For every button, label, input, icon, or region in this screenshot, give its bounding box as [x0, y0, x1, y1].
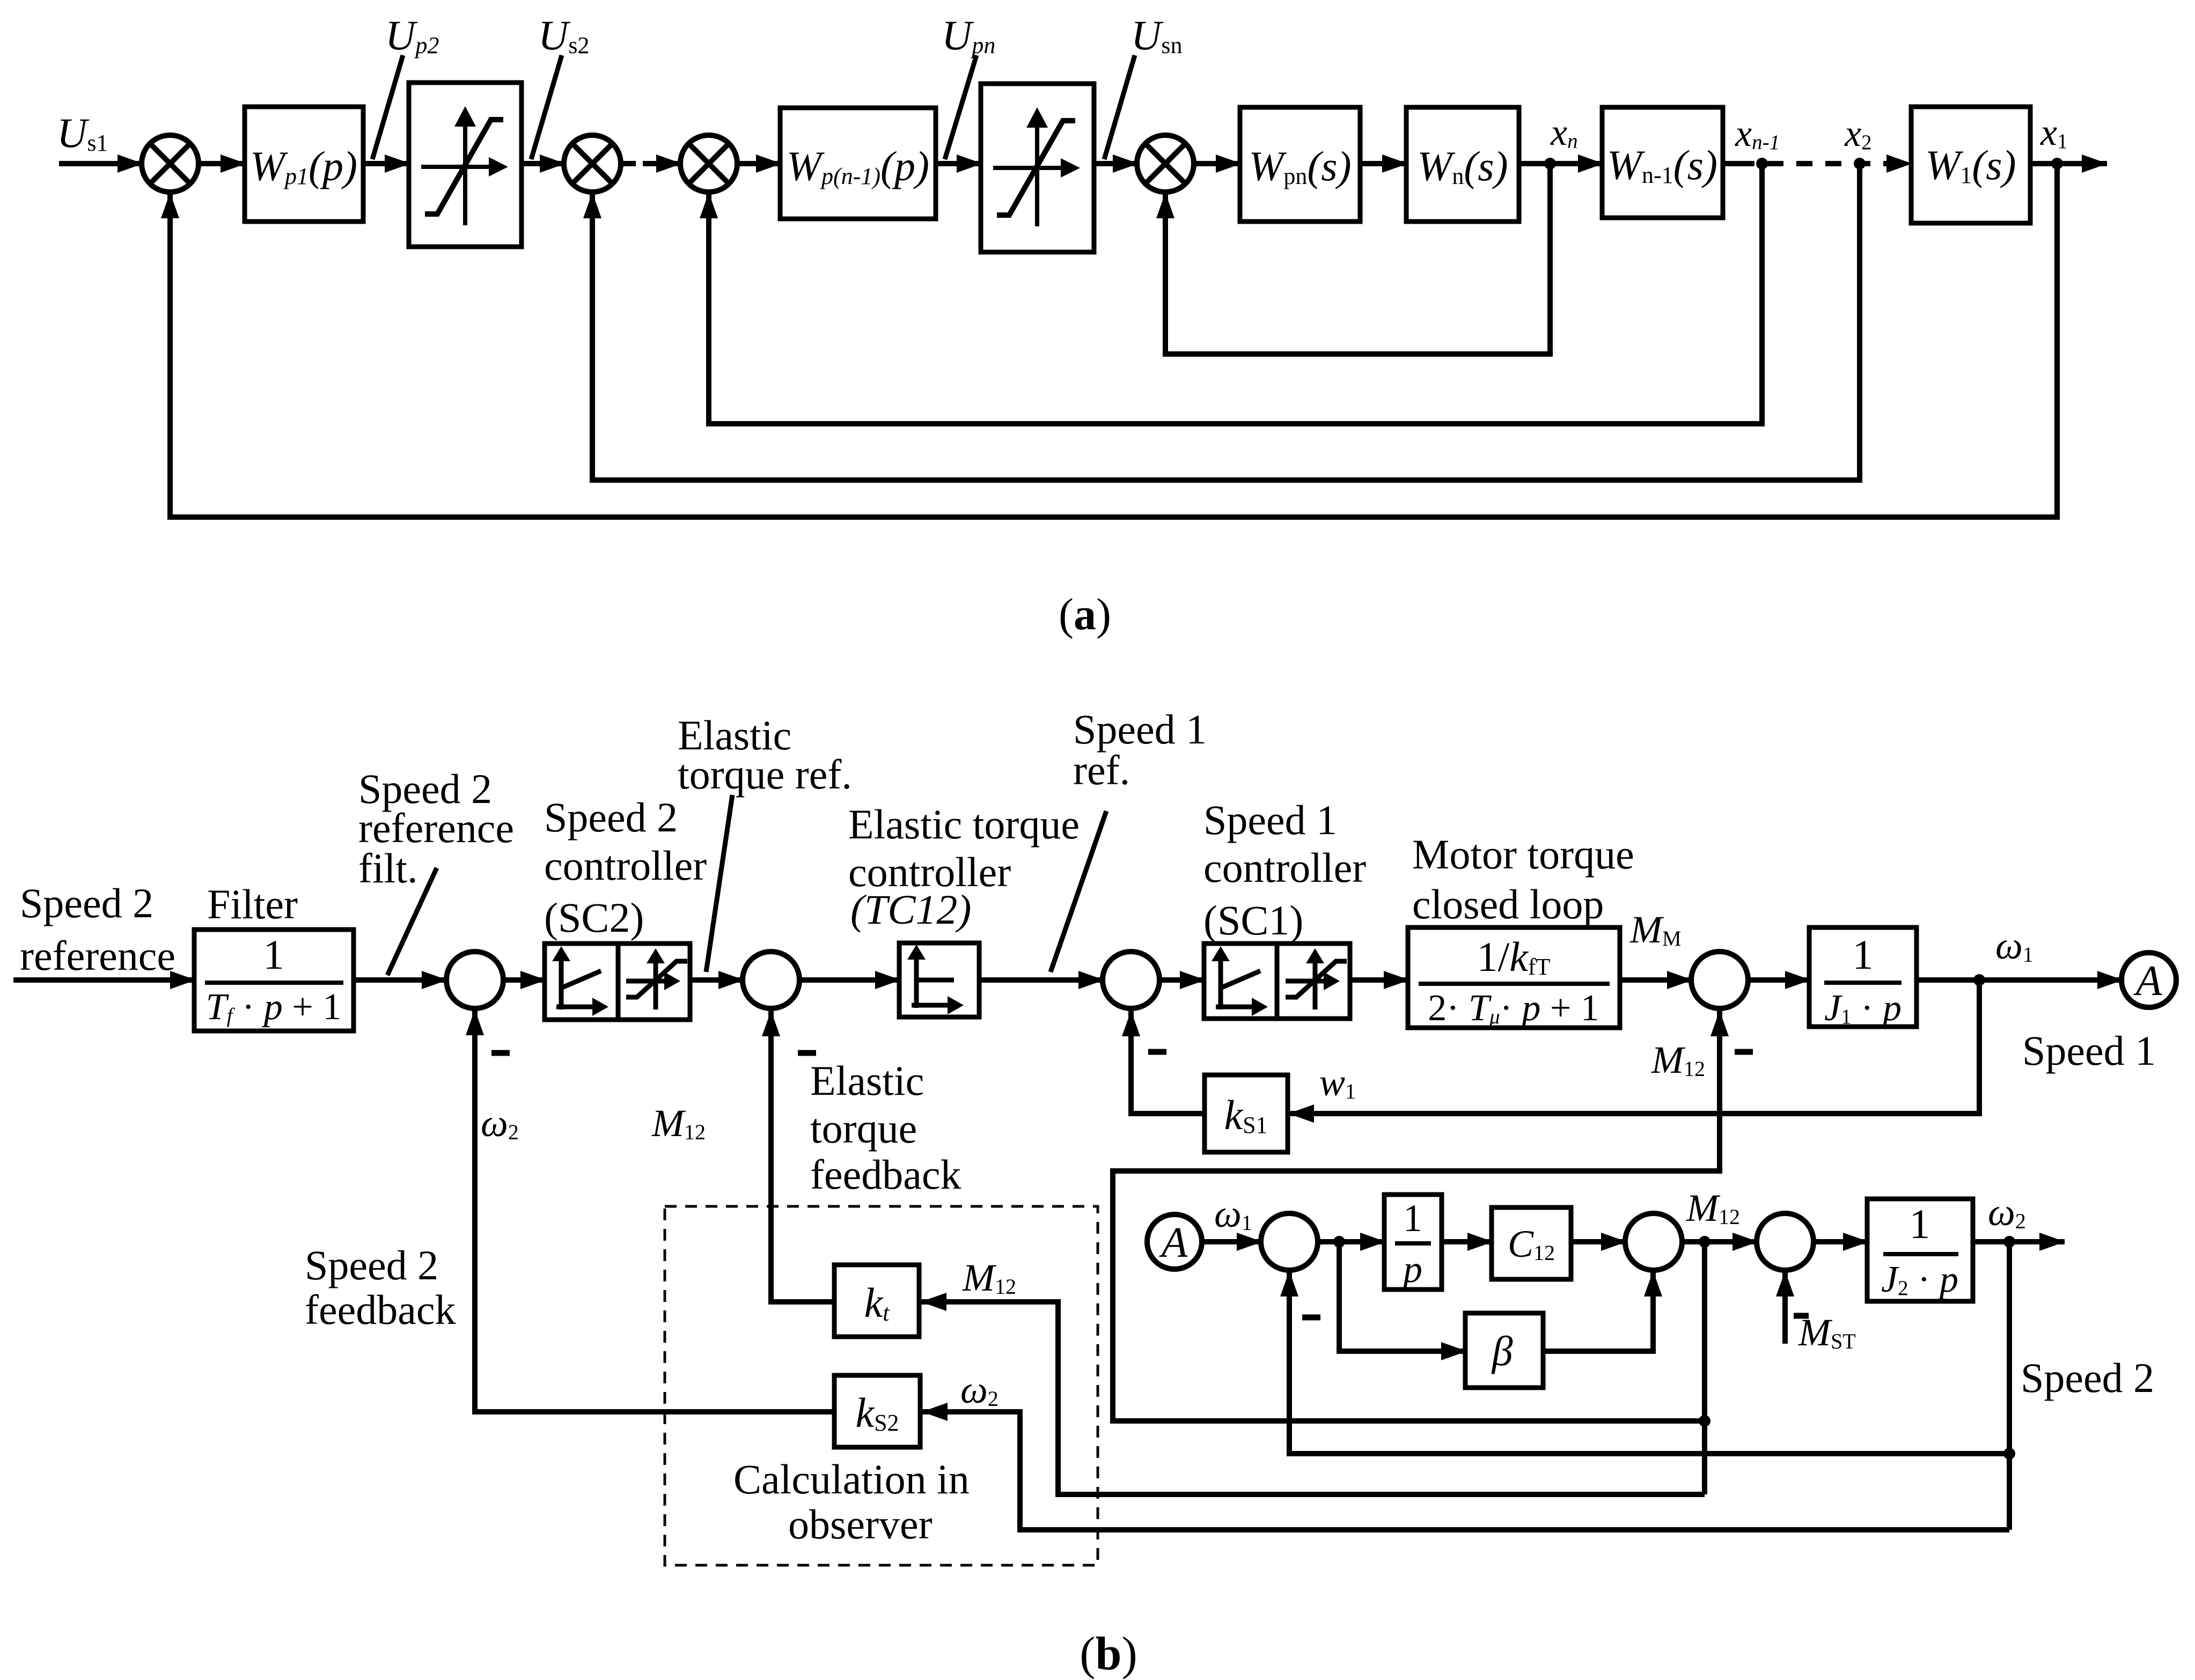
svg-text:Speed 2: Speed 2 — [2021, 1354, 2154, 1401]
wire J2 output Speed 2 with node omega2 — [1973, 1239, 2065, 1244]
node x2 junction dot — [1854, 158, 1866, 170]
wire arrow into S3 — [643, 161, 681, 166]
node x1 junction dot — [2051, 158, 2063, 170]
node xn junction dot — [1544, 158, 1556, 170]
label minus at SB5 — [1302, 1315, 1320, 1321]
beta branch wire down and into beta block — [1339, 1242, 1466, 1351]
wire input Us1 into S1 — [59, 161, 143, 166]
leader line Up2 — [372, 55, 403, 159]
svg-text:J1 · p: J1 · p — [1824, 988, 1902, 1029]
wire input to Filter — [13, 977, 195, 983]
wire 1/p to C12 — [1442, 1239, 1493, 1244]
node M12 branch junction dot — [1699, 1415, 1711, 1427]
svg-text:1: 1 — [1853, 931, 1874, 978]
svg-text:(SC1): (SC1) — [1203, 897, 1303, 944]
node omega1 junction dot — [1973, 974, 1985, 986]
summing junction S3 — [680, 135, 737, 192]
summing junction SB4 — [1691, 952, 1748, 1008]
wire M12 to SB4 big loop — [1113, 1011, 1720, 1421]
svg-text:reference: reference — [358, 805, 514, 851]
wire SC1 to motor torque block — [1350, 977, 1409, 983]
svg-text:Speed 2: Speed 2 — [305, 1242, 438, 1288]
wire C12 to SB6 — [1571, 1239, 1626, 1244]
wire SB5 to 1/p block with node — [1318, 1239, 1385, 1244]
svg-text:filt.: filt. — [358, 845, 418, 891]
leader line Usn — [1104, 55, 1135, 159]
block Wpn(s) — [1240, 107, 1360, 222]
summing junction S4 — [1137, 135, 1194, 192]
wire kt to SB2 elastic torque feedback — [771, 1011, 834, 1302]
svg-text:1: 1 — [1910, 1200, 1930, 1247]
sensor circle A upper — [2121, 953, 2176, 1007]
leader line Elastic torque ref — [706, 795, 732, 972]
wire MST input to SB7 — [1782, 1271, 1788, 1344]
feedback wire xn-1 to S3 — [709, 164, 1762, 424]
svg-text:torque: torque — [810, 1105, 917, 1152]
node beta branch junction dot — [1333, 1236, 1345, 1248]
svg-text:reference: reference — [20, 932, 175, 979]
svg-text:2· Tμ· p + 1: 2· Tμ· p + 1 — [1428, 988, 1599, 1029]
node M12 junction dot — [1699, 1236, 1711, 1248]
svg-text:(a): (a) — [1059, 590, 1111, 639]
label minus at SB3 — [1148, 1049, 1166, 1055]
svg-text:β: β — [1491, 1328, 1513, 1374]
svg-text:J2 · p: J2 · p — [1881, 1259, 1958, 1300]
svg-text:torque ref.: torque ref. — [678, 751, 852, 798]
svg-text:observer: observer — [788, 1501, 933, 1548]
block motor torque closed loop — [1408, 927, 1620, 1028]
svg-text:Elastic torque: Elastic torque — [848, 801, 1080, 848]
wire SC2 to SB2 — [690, 977, 744, 983]
svg-text:Speed 1: Speed 1 — [1073, 706, 1207, 753]
block 1/(J1 p) — [1809, 927, 1917, 1027]
wire SB1 to SC2 — [503, 977, 546, 983]
svg-text:closed loop: closed loop — [1412, 881, 1604, 927]
wire M12 vertical down — [1702, 1242, 1707, 1494]
wire A to SB5 — [1202, 1239, 1262, 1244]
block kt — [834, 1265, 919, 1337]
leader line Speed 1 ref — [1051, 811, 1106, 972]
wire Wn to Wn-1 with node xn — [1519, 161, 1603, 166]
leader line Upn — [945, 55, 977, 159]
svg-text:A: A — [2133, 957, 2163, 1005]
svg-text:1: 1 — [263, 931, 284, 978]
block 1/(J2 p) — [1867, 1199, 1973, 1301]
summing junction SB2 — [743, 952, 799, 1008]
wire TC12 to SB3 — [979, 977, 1104, 983]
wire Filter to SB1 — [354, 977, 447, 983]
block SC1 speed 1 controller — [1204, 944, 1350, 1019]
block Wp(n-1)(p) — [780, 108, 936, 219]
limiter block L1 — [409, 83, 522, 247]
wire L2 to S4 — [1094, 161, 1138, 166]
wire S1 to block Wp1 — [199, 161, 246, 166]
wire SB3 to SC1 — [1159, 977, 1205, 983]
svg-text:Tf · p + 1: Tf · p + 1 — [206, 986, 342, 1028]
block Wn-1(s) — [1602, 107, 1723, 218]
summing junction S1 — [142, 135, 199, 192]
svg-text:Motor torque: Motor torque — [1412, 831, 1634, 878]
block C12 — [1492, 1207, 1571, 1279]
label minus at SB4 — [1735, 1049, 1753, 1055]
wire omega2 vertical down — [2007, 1242, 2012, 1530]
wire S3 to block Wp(n-1) — [737, 161, 781, 166]
summing junction SB7 — [1757, 1213, 1814, 1270]
svg-text:Speed 1: Speed 1 — [1203, 797, 1337, 843]
wire MT block to SB4 — [1620, 977, 1692, 983]
wire omega2 to kS2 block — [922, 1412, 2009, 1530]
feedback wire xn to S4 — [1165, 164, 1550, 354]
wire M12 to kt block — [921, 1302, 1705, 1494]
summing junction SB6 — [1625, 1213, 1682, 1270]
wire SB6 to SB7 with node M12 — [1682, 1239, 1758, 1244]
svg-text:Speed 2: Speed 2 — [544, 794, 678, 841]
wire stub after Wn-1 — [1723, 161, 1738, 166]
block Wp1(p) — [245, 107, 363, 222]
summing junction SB3 — [1103, 952, 1159, 1008]
svg-text:controller: controller — [1203, 844, 1366, 891]
svg-text:Speed 1: Speed 1 — [2022, 1027, 2156, 1074]
leader line Us2 — [531, 55, 562, 159]
svg-text:Speed 2: Speed 2 — [20, 880, 153, 926]
wire beta to SB6 — [1543, 1271, 1653, 1351]
wire Wpn to Wn — [1360, 161, 1407, 166]
summing junction SB5 — [1261, 1213, 1318, 1270]
node xn-1 junction dot — [1756, 158, 1768, 170]
wire kS1 to SB3 — [1131, 1011, 1205, 1114]
wire stub S2 dashed continuation — [621, 161, 636, 166]
block Filter — [194, 930, 354, 1031]
feedback wire omega1 to kS1 — [1289, 980, 1979, 1114]
block beta — [1465, 1313, 1543, 1388]
label minus at SB1 — [491, 1050, 510, 1056]
feedback wire x1 to S1 — [170, 164, 2057, 517]
block kS2 — [834, 1375, 920, 1447]
block kS1 — [1205, 1075, 1288, 1152]
block SC2 speed 2 controller — [545, 944, 690, 1020]
label minus at SB2 — [798, 1050, 816, 1056]
block Wn(s) — [1406, 107, 1519, 222]
wire W1 output x1 — [2030, 161, 2107, 166]
wire S4 to block Wpn — [1194, 161, 1241, 166]
summing junction SB1 — [446, 952, 503, 1008]
svg-text:A: A — [1159, 1219, 1188, 1266]
node omega2 junction dot — [2003, 1236, 2015, 1248]
wire Wp(n-1) to limiter L2 — [936, 161, 982, 166]
svg-text:Calculation in: Calculation in — [733, 1456, 970, 1502]
svg-text:(TC12): (TC12) — [850, 886, 971, 933]
svg-text:p: p — [1400, 1248, 1422, 1291]
svg-text:feedback: feedback — [810, 1151, 961, 1198]
feedback wire x2 to S2 — [592, 164, 1860, 480]
block TC12 elastic torque controller — [899, 943, 979, 1017]
observer dashed box — [665, 1206, 1098, 1565]
dashed wire Wn-1 to W1 — [1738, 161, 1912, 166]
svg-text:Elastic: Elastic — [810, 1057, 924, 1104]
svg-text:feedback: feedback — [305, 1286, 456, 1333]
wire SB2 to TC12 — [799, 977, 900, 983]
wire Wp1 to limiter L1 — [363, 161, 410, 166]
wire omega2 to SB5 — [1289, 1271, 2009, 1454]
block 1/p — [1384, 1195, 1442, 1290]
wire SB7 to J2 block — [1814, 1239, 1868, 1244]
label MST with minus — [1794, 1313, 1809, 1319]
wire L1 to S2 — [522, 161, 565, 166]
node omega2 branch junction dot — [2003, 1448, 2015, 1460]
svg-text:Filter: Filter — [207, 881, 298, 927]
summing junction S2 — [564, 135, 621, 192]
block W1(s) — [1911, 107, 2030, 223]
svg-text:(SC2): (SC2) — [544, 894, 644, 941]
svg-text:ref.: ref. — [1073, 747, 1130, 793]
leader line Speed 2 reference filt — [387, 868, 437, 975]
svg-text:controller: controller — [544, 842, 707, 889]
wire kS2 to SB1 speed 2 feedback — [475, 1010, 834, 1412]
wire J1 to sensor A with node omega1 — [1917, 977, 2123, 983]
wire SB4 to J1 block — [1748, 977, 1810, 983]
limiter block L2 — [981, 84, 1094, 252]
sensor circle A lower — [1147, 1214, 1202, 1269]
svg-text:1: 1 — [1403, 1197, 1422, 1240]
svg-text:(b): (b) — [1080, 1628, 1137, 1680]
